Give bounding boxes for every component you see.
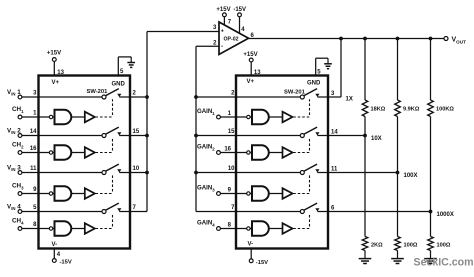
ground <box>391 253 404 264</box>
switch U1 channel 3 <box>39 164 131 174</box>
dashed control line U1 channel 1 <box>96 99 113 117</box>
ground U2 pin 5 <box>316 58 332 75</box>
switch U2 channel 4 <box>236 203 328 213</box>
wire CH4 to U1 pin 8 <box>22 222 55 229</box>
dashed control line U1 channel 2 <box>96 138 113 153</box>
svg-text:+15V: +15V <box>47 51 61 57</box>
wire CH1 to U1 pin 1 <box>22 111 55 118</box>
svg-text:1000X: 1000X <box>437 212 454 218</box>
wire node B to U2 pin 7 <box>196 205 236 212</box>
switch U2 channel 3 <box>236 164 328 174</box>
switch U1 channel 1 <box>39 89 131 99</box>
resistor 100ohm <box>395 173 418 254</box>
op-amp U3 OP-02 <box>219 22 249 55</box>
AND gate U2 channel 2 <box>247 145 293 159</box>
wire node B to U2 pin 10 <box>196 166 236 173</box>
wire GAIN1 to U2 pin 1 <box>220 111 252 117</box>
analog switch U2 SW-201 body <box>236 76 328 249</box>
svg-text:16: 16 <box>224 146 231 152</box>
AND gate U2 channel 4 <box>247 221 293 235</box>
svg-text:V+: V+ <box>52 80 60 86</box>
+15V terminal U1 pin 13 <box>47 51 65 77</box>
node B bus (feedback to inverting input) <box>194 46 198 211</box>
analog switch U1 SW-201 body <box>39 76 131 249</box>
resistor 2Kohm <box>362 136 383 254</box>
switch U2 channel 2 <box>236 127 328 137</box>
node 10X label <box>363 134 382 143</box>
AND gate U1 channel 1 <box>49 110 95 124</box>
wire GAIN4 to U2 pin 8 <box>220 222 252 228</box>
switch U1 channel 2 <box>39 127 131 137</box>
terminal GAIN1 <box>197 108 220 119</box>
wire 1X riser <box>340 39 342 98</box>
AND gate U1 channel 3 <box>49 186 95 200</box>
wire GAIN2 to U2 pin 16 <box>220 146 252 152</box>
terminal V_IN2 <box>7 127 22 137</box>
svg-text:16: 16 <box>30 146 37 152</box>
AND gate U2 channel 3 <box>247 186 293 200</box>
wire node B to U2 pin 15 <box>196 129 236 136</box>
wire U1 pin 10 to node A <box>130 166 147 173</box>
wire CH3 to U1 pin 9 <box>22 187 55 194</box>
svg-text:14: 14 <box>30 129 37 135</box>
resistor 18Kohm <box>362 39 386 136</box>
wire V_IN3 to U1 pin 11 <box>22 166 39 173</box>
wire node A to op-amp U3 pin 3 <box>147 25 219 32</box>
svg-text:-15V: -15V <box>256 260 268 266</box>
svg-text:OP-02: OP-02 <box>224 36 239 42</box>
svg-text:-15V: -15V <box>60 260 72 266</box>
terminal V_OUT <box>444 37 466 45</box>
svg-text:100X: 100X <box>404 173 418 179</box>
svg-text:10X: 10X <box>371 136 382 142</box>
svg-text:13: 13 <box>57 70 64 76</box>
terminal CH4 <box>12 218 24 231</box>
wire U1 pin 15 to node A <box>130 129 147 136</box>
svg-text:100KΩ: 100KΩ <box>436 107 454 113</box>
dashed control line U2 channel 4 <box>293 214 309 229</box>
svg-text:100Ω: 100Ω <box>404 243 418 249</box>
-15V terminal U2 pin 4 <box>249 249 268 267</box>
dashed control line U1 channel 4 <box>96 214 113 229</box>
svg-text:10: 10 <box>133 166 140 172</box>
terminal V_IN4 <box>7 203 22 213</box>
svg-text:+15V: +15V <box>243 52 257 58</box>
wire U3 pin 2 to node B <box>196 40 219 46</box>
svg-text:13: 13 <box>254 70 261 76</box>
wire U1 pin 2 to node A <box>130 91 147 98</box>
svg-text:V+: V+ <box>247 79 255 85</box>
resistor 100Kohm <box>428 39 455 212</box>
wire CH2 to U1 pin 16 <box>22 146 55 153</box>
wire V_IN4 to U1 pin 5 <box>22 205 39 212</box>
svg-text:V-: V- <box>52 242 58 248</box>
terminal V_IN3 <box>7 164 22 174</box>
wire U3 pin 6 output rail <box>249 33 445 40</box>
terminal GAIN2 <box>197 144 220 155</box>
svg-text:SeekIC.com: SeekIC.com <box>414 257 474 269</box>
wire U1 pin 7 to node A <box>130 205 147 212</box>
wire U2 pin 11 to 100X tap <box>328 167 398 173</box>
switch U1 channel 4 <box>39 203 131 213</box>
svg-text:SW-201: SW-201 <box>87 89 109 95</box>
wire V_IN2 to U1 pin 14 <box>22 129 39 136</box>
svg-text:9.9KΩ: 9.9KΩ <box>403 107 420 113</box>
svg-text:-15V: -15V <box>233 7 246 13</box>
dashed control line U1 channel 3 <box>96 175 113 194</box>
dashed control line U2 channel 2 <box>293 138 309 153</box>
svg-text:18KΩ: 18KΩ <box>371 107 386 113</box>
node 1X label <box>346 97 353 103</box>
ground <box>359 253 372 264</box>
wire U2 pin 6 to 1000X tap <box>328 206 431 212</box>
terminal GAIN4 <box>197 220 220 231</box>
+15V terminal U2 pin 13 <box>243 52 261 76</box>
svg-text:11: 11 <box>30 166 37 172</box>
svg-text:14: 14 <box>331 130 338 136</box>
svg-text:-: - <box>221 43 223 50</box>
svg-text:GND: GND <box>112 82 126 88</box>
svg-text:+15V: +15V <box>216 7 230 13</box>
dashed control line U2 channel 3 <box>293 175 309 194</box>
terminal CH2 <box>12 142 24 155</box>
AND gate U2 channel 1 <box>247 110 293 124</box>
terminal GAIN3 <box>197 185 220 196</box>
svg-text:11: 11 <box>331 167 338 173</box>
AND gate U1 channel 2 <box>49 145 95 159</box>
node 100X label <box>396 171 418 180</box>
+15V terminal U3 pin 7 <box>216 7 231 26</box>
wire node B to U2 pin 2 <box>196 91 236 98</box>
svg-text:10: 10 <box>228 166 235 172</box>
svg-text:1X: 1X <box>346 97 353 103</box>
svg-text:15: 15 <box>133 129 140 135</box>
node 1000X label <box>429 210 454 219</box>
switch U2 channel 1 <box>236 89 328 99</box>
terminal CH3 <box>12 183 24 196</box>
dashed control line U2 channel 1 <box>293 99 309 117</box>
svg-text:15: 15 <box>228 129 235 135</box>
wire U2 pin 3 to 1X tap <box>328 91 341 97</box>
wire U2 pin 14 to 10X tap <box>328 130 365 136</box>
terminal CH1 <box>12 106 24 119</box>
terminal V_IN1 <box>7 89 22 99</box>
svg-text:100Ω: 100Ω <box>437 243 451 249</box>
svg-text:2KΩ: 2KΩ <box>371 243 383 249</box>
svg-text:V-: V- <box>248 242 254 248</box>
-15V terminal U1 pin 4 <box>52 249 71 266</box>
wire GAIN3 to U2 pin 9 <box>220 187 252 193</box>
ground <box>424 253 437 264</box>
resistor 100ohm <box>428 212 451 254</box>
ground U1 pin 5 <box>118 57 135 76</box>
resistor 9.9Kohm <box>395 39 420 173</box>
AND gate U1 channel 4 <box>49 221 95 235</box>
-15V terminal U3 pin 4 <box>233 7 246 33</box>
node A bus (to op-amp noninverting input) <box>145 32 149 212</box>
svg-text:GND: GND <box>307 81 321 87</box>
watermark <box>414 257 474 269</box>
wire V_IN1 to U1 pin 3 <box>22 91 39 98</box>
